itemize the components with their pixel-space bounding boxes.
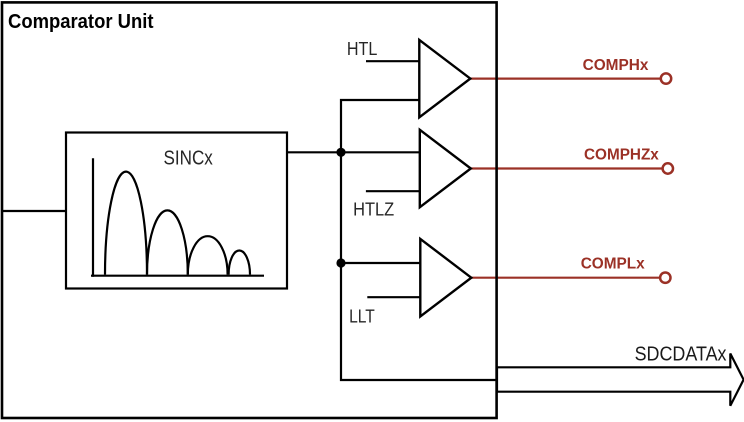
svg-text:HTLZ: HTLZ [353, 199, 394, 219]
svg-text:Comparator Unit: Comparator Unit [8, 11, 154, 33]
svg-text:SDCDATAx: SDCDATAx [635, 343, 727, 365]
svg-text:COMPHZx: COMPHZx [584, 146, 659, 163]
svg-text:HTL: HTL [347, 39, 378, 59]
svg-text:COMPHx: COMPHx [583, 57, 649, 74]
svg-text:COMPLx: COMPLx [581, 255, 645, 272]
svg-text:LLT: LLT [349, 306, 375, 326]
svg-text:SINCx: SINCx [164, 148, 213, 170]
